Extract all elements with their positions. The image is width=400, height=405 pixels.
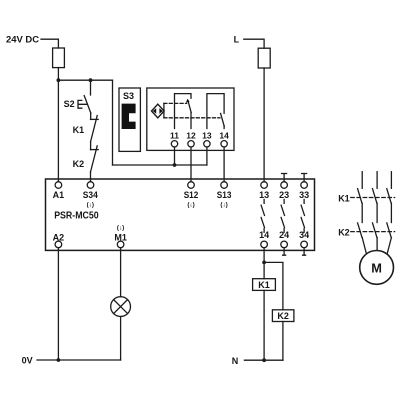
terminal S12 [188, 182, 195, 189]
terminal 13 [261, 182, 268, 189]
wire L2 to motor [376, 238, 378, 251]
svg-text:M: M [371, 260, 382, 275]
wire terminal 11 drop [174, 147, 176, 165]
wire L down to terminal 13 [263, 68, 265, 182]
contact K1 lever [91, 116, 98, 142]
wire terminal 13 drop [206, 147, 208, 165]
svg-text:PSR-MC50: PSR-MC50 [54, 210, 99, 221]
wire sensor feed horizontal to 11 and 13 [113, 164, 207, 166]
terminal S34 [87, 182, 94, 189]
wire phase L3 [390, 172, 392, 189]
terminal 14 [261, 241, 268, 248]
svg-text:S2: S2 [64, 99, 75, 109]
node junction 24V rail [57, 78, 61, 82]
node junction N [262, 358, 266, 362]
svg-text:K1: K1 [338, 193, 350, 203]
S3 transmitter pictogram [122, 104, 136, 129]
node junction K2 branch [262, 261, 266, 265]
svg-text:S3: S3 [123, 91, 134, 101]
contactor K1 lever L1 [358, 189, 362, 204]
relay PSR-MC50 block [46, 179, 315, 250]
wire 14 down to K1 [263, 248, 265, 279]
stub terminal 34 [303, 248, 306, 256]
sensor contact 2 lever [221, 113, 225, 126]
contactor K1 lever L2 [373, 189, 377, 204]
node junction 0V [57, 358, 61, 362]
wire K2 branch [264, 262, 283, 309]
wire N rail [244, 359, 283, 361]
wire phase L2 mid [376, 203, 378, 222]
svg-text:(↓): (↓) [187, 202, 194, 209]
wire 24V rail down to A1 [57, 68, 59, 182]
wire top branch to sensor feed [58, 79, 112, 81]
coil K1 [253, 279, 276, 291]
contact K1 fixed tick [91, 118, 99, 120]
contactor K2 lever L1 [358, 223, 362, 238]
wire K1 to K2 [90, 142, 92, 150]
stub terminal 24 [283, 248, 286, 256]
lamp P1 cross [114, 300, 128, 314]
lamp P1 [111, 297, 131, 317]
relay contact path 13-14 [261, 199, 264, 232]
svg-text:(↓): (↓) [87, 202, 94, 209]
contactor K1 lever L3 [387, 189, 391, 204]
svg-text:K1: K1 [258, 280, 270, 290]
sensor contact 1 arrow head [186, 99, 190, 103]
switch S2 contact lever [84, 96, 91, 113]
svg-text:S12: S12 [184, 190, 199, 200]
contact K2 fixed tick [91, 149, 99, 151]
wire terminal 14 to S13 [223, 147, 225, 182]
svg-text:L: L [234, 35, 240, 45]
dashed actuation line upper [164, 102, 187, 104]
svg-text:33: 33 [299, 190, 309, 200]
svg-text:K2: K2 [277, 311, 289, 321]
sensor terminal 12 [188, 141, 194, 147]
light curtain transmitter S3 box [119, 88, 140, 151]
wire bridge terminal 13 to contact [207, 94, 224, 129]
wire terminal 12 to S12 [190, 147, 192, 182]
svg-text:(↓): (↓) [117, 224, 124, 231]
wire M1 down to lamp [120, 248, 122, 297]
wire K2 to S34 [90, 172, 92, 182]
svg-text:11: 11 [170, 130, 179, 140]
wire A2 down to 0V [57, 248, 59, 360]
wire phase L3 mid [390, 203, 392, 222]
coil K2 [272, 310, 294, 322]
svg-text:N: N [232, 356, 239, 366]
wire phase L1 [361, 172, 363, 189]
wire phase L1 mid [361, 203, 363, 222]
motor M [360, 251, 394, 285]
terminal S13 [221, 182, 228, 189]
sensor terminal 11 [171, 141, 177, 147]
wire phase L2 [376, 172, 378, 189]
terminal A2 [55, 241, 62, 248]
contact K2 lever [91, 146, 98, 172]
dashed link K2 [351, 231, 395, 233]
svg-text:24V DC: 24V DC [6, 35, 40, 45]
terminal 24 [281, 241, 288, 248]
wire sensor feed down [112, 80, 114, 165]
wire lamp to 0V [120, 317, 122, 361]
wire 24V DC lead [41, 39, 58, 48]
dashed link K1 [351, 197, 395, 199]
wire K2 to N rail [282, 322, 284, 361]
svg-text:S13: S13 [217, 190, 232, 200]
terminal 33 [301, 182, 308, 189]
wire L lead [244, 39, 264, 48]
svg-text:A1: A1 [53, 190, 65, 200]
wire S2 branch drop [90, 80, 92, 95]
wire L3 to motor [387, 238, 391, 254]
svg-text:13: 13 [202, 130, 212, 140]
terminal M1 [117, 241, 124, 248]
svg-text:13: 13 [259, 190, 269, 200]
svg-text:K2: K2 [338, 227, 350, 237]
sensor output bar [163, 103, 165, 117]
relay contact path 23-24 [281, 199, 284, 232]
terminal A1 [55, 182, 62, 189]
sensor diamond inner marks [153, 108, 163, 114]
terminal 23 [281, 182, 288, 189]
contactor K2 lever L3 [387, 223, 391, 238]
svg-text:K1: K1 [73, 125, 85, 135]
contactor K2 lever L2 [373, 223, 377, 238]
sensor contact 1 lever [188, 102, 191, 113]
node junction S2 branch [89, 78, 93, 82]
wire K1 to N [263, 290, 265, 360]
svg-text:(↓): (↓) [220, 202, 227, 209]
wire bridge terminal 11 to contact [175, 94, 192, 129]
svg-text:14: 14 [219, 130, 229, 140]
svg-text:K2: K2 [73, 159, 85, 169]
relay contact path 33-34 [301, 199, 304, 232]
sensor terminal 13 [204, 141, 210, 147]
sensor terminal 14 [221, 141, 227, 147]
terminal 34 [301, 241, 308, 248]
svg-text:23: 23 [279, 190, 289, 200]
dashed actuation line lower [164, 117, 220, 119]
node junction terminal 11 drop [173, 163, 177, 167]
svg-text:12: 12 [186, 130, 196, 140]
stub terminal 23 [282, 174, 287, 182]
fuse F2 [258, 48, 270, 68]
fuse F1 [53, 48, 65, 68]
wire contact 2 to terminal 14 [223, 126, 225, 128]
wire S2 to K1 [90, 113, 92, 119]
stub terminal 33 [302, 174, 307, 182]
wire L1 to motor [362, 238, 366, 254]
switch S2 manual actuator [78, 100, 86, 108]
sensor diamond symbol [152, 104, 165, 118]
svg-text:0V: 0V [22, 355, 33, 365]
svg-text:S34: S34 [83, 190, 98, 200]
wire contact to terminal 12 [190, 113, 192, 129]
safety sensor S4 box [147, 88, 234, 150]
wire 0V rail [37, 359, 121, 361]
